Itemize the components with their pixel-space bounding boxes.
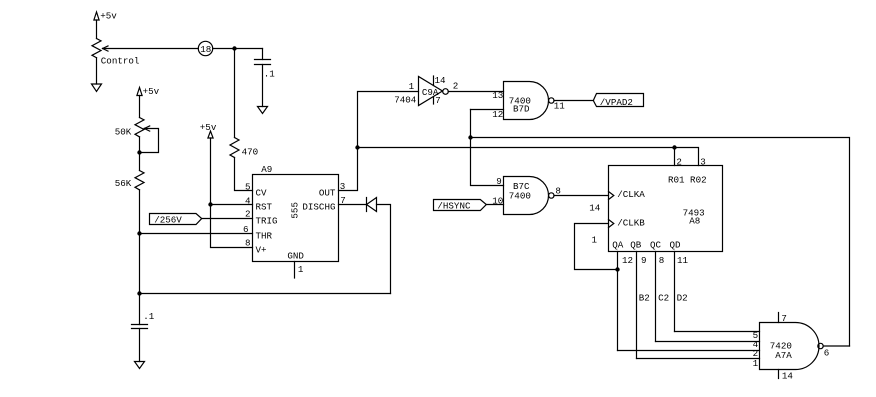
svg-text:V+: V+ [256,244,267,255]
svg-text:8: 8 [659,255,665,266]
svg-text:B2: B2 [639,293,650,304]
svg-text:1: 1 [409,81,415,92]
svg-text:/256V: /256V [154,215,182,226]
svg-text:+5v: +5v [200,122,217,133]
svg-text:A9: A9 [261,164,272,175]
svg-text:6: 6 [243,224,249,235]
svg-text:/VPAD2: /VPAD2 [600,97,633,108]
svg-text:13: 13 [492,90,503,101]
svg-text:6: 6 [824,347,830,358]
svg-text:7: 7 [435,95,441,106]
svg-text:1: 1 [753,358,759,369]
svg-text:/CLKA: /CLKA [617,189,645,200]
svg-text:B7D: B7D [513,104,530,115]
svg-text:QD: QD [670,240,682,251]
svg-text:14: 14 [435,75,447,86]
svg-text:A8: A8 [689,216,700,227]
svg-text:TRIG: TRIG [256,215,278,226]
svg-text:C2: C2 [658,293,669,304]
svg-text:5: 5 [245,182,251,193]
svg-text:/CLKB: /CLKB [617,218,645,229]
svg-text:14: 14 [782,371,794,382]
svg-text:9: 9 [496,176,502,187]
svg-text:CV: CV [256,187,268,198]
svg-text:8: 8 [245,238,251,249]
svg-text:8: 8 [555,186,561,197]
svg-text:QB: QB [630,240,642,251]
svg-text:.1: .1 [264,68,276,79]
svg-text:2: 2 [453,80,459,91]
svg-text:1: 1 [298,264,304,275]
svg-text:1: 1 [592,235,598,246]
svg-text:9: 9 [641,255,647,266]
svg-text:QC: QC [650,240,662,251]
svg-text:A7A: A7A [775,350,792,361]
svg-text:4: 4 [245,195,251,206]
svg-text:11: 11 [677,255,689,266]
svg-text:GND: GND [287,250,304,261]
svg-text:+5v: +5v [143,86,160,97]
svg-text:12: 12 [492,109,503,120]
svg-text:.1: .1 [143,311,155,322]
svg-text:OUT: OUT [319,187,336,198]
svg-text:12: 12 [622,255,633,266]
svg-text:THR: THR [256,230,273,241]
svg-text:10: 10 [492,195,503,206]
svg-text:DISCHG: DISCHG [302,202,335,213]
svg-text:14: 14 [589,203,601,214]
svg-text:+5v: +5v [100,11,117,22]
svg-text:7404: 7404 [394,94,417,105]
svg-text:QA: QA [612,240,624,251]
svg-text:Control: Control [101,56,140,67]
svg-text:7400: 7400 [509,190,531,201]
svg-text:D2: D2 [677,293,688,304]
svg-text:50K: 50K [115,126,132,137]
svg-text:555: 555 [289,202,300,219]
svg-text:7: 7 [781,313,787,324]
svg-text:470: 470 [242,147,259,158]
svg-text:56K: 56K [115,178,132,189]
svg-text:RST: RST [256,202,273,213]
svg-text:R01 R02: R01 R02 [668,174,707,185]
svg-text:18: 18 [200,44,211,55]
svg-text:/HSYNC: /HSYNC [437,200,471,211]
svg-text:11: 11 [554,101,566,112]
svg-text:2: 2 [245,209,251,220]
